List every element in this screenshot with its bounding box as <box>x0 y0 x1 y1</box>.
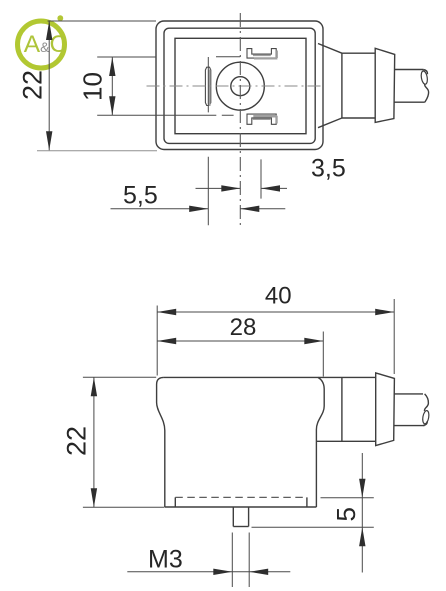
top view: cable <box>395 70 425 103</box>
side view: dim M3 extension lines <box>232 533 249 588</box>
top view: dim 5,5 extension line <box>207 57 209 225</box>
top view: gland cone <box>318 44 342 128</box>
top view: dim 22 line <box>48 21 50 150</box>
top view: horizontal centerline <box>147 85 322 87</box>
top view: upper blade slot <box>247 49 276 59</box>
side view: gland cylinder <box>316 377 375 441</box>
top view: lower blade slot <box>247 114 276 124</box>
logo dot <box>57 15 63 21</box>
side view: dim 28 line <box>157 340 323 342</box>
side view: gasket step edges <box>175 497 307 507</box>
side view: dim 28 right extension <box>322 332 324 377</box>
svg-text:22: 22 <box>62 426 92 456</box>
svg-text:40: 40 <box>265 283 292 310</box>
side view: hidden gasket dashed line <box>175 496 307 498</box>
side view: dim 40 line <box>157 311 394 313</box>
top view: dim 22 extension lines <box>48 20 157 22</box>
side view: dim 5 line <box>361 453 363 573</box>
top view: dim 10 extension lines <box>97 56 240 58</box>
top view: dim 10 line <box>111 57 113 115</box>
side view: cable <box>394 394 425 426</box>
svg-text:22: 22 <box>18 70 48 100</box>
side view: dim 22 line <box>93 377 95 507</box>
top view: gland nut <box>375 48 395 122</box>
svg-text:A&C: A&C <box>24 31 67 58</box>
svg-text:10: 10 <box>77 72 107 101</box>
svg-text:28: 28 <box>230 314 257 341</box>
svg-text:5: 5 <box>331 507 361 521</box>
side view: gland nut <box>376 373 395 446</box>
top view: inner square recess <box>175 38 306 133</box>
side view: mounting screw stub M3 <box>233 507 248 527</box>
side view: dim 5 extension lines <box>252 498 374 528</box>
side view: dim 40/28 left extension <box>156 306 158 376</box>
side view: dim 22 extension lines <box>83 377 164 507</box>
svg-text:3,5: 3,5 <box>311 155 346 183</box>
top view: dim 5,5 line <box>111 208 286 210</box>
logo A&C circle <box>18 21 65 68</box>
side view: dim M3 line <box>127 571 290 573</box>
svg-text:5,5: 5,5 <box>123 182 158 210</box>
top view: inner rounded rect <box>164 28 315 143</box>
top view: gland cylinder <box>342 53 375 118</box>
top view: dim 3,5 extension line <box>260 159 262 198</box>
side view: dim 40 right extension <box>393 299 395 374</box>
top view: outer rounded body <box>156 21 323 150</box>
side view: body outline <box>157 377 165 507</box>
top view: inner circle <box>231 77 250 96</box>
top view: left keyway slot <box>205 67 210 105</box>
svg-text:M3: M3 <box>148 546 183 574</box>
top view: outer circle <box>216 62 264 110</box>
top view: vertical centerline <box>239 13 241 228</box>
top view: dim 3,5 line <box>196 187 288 189</box>
